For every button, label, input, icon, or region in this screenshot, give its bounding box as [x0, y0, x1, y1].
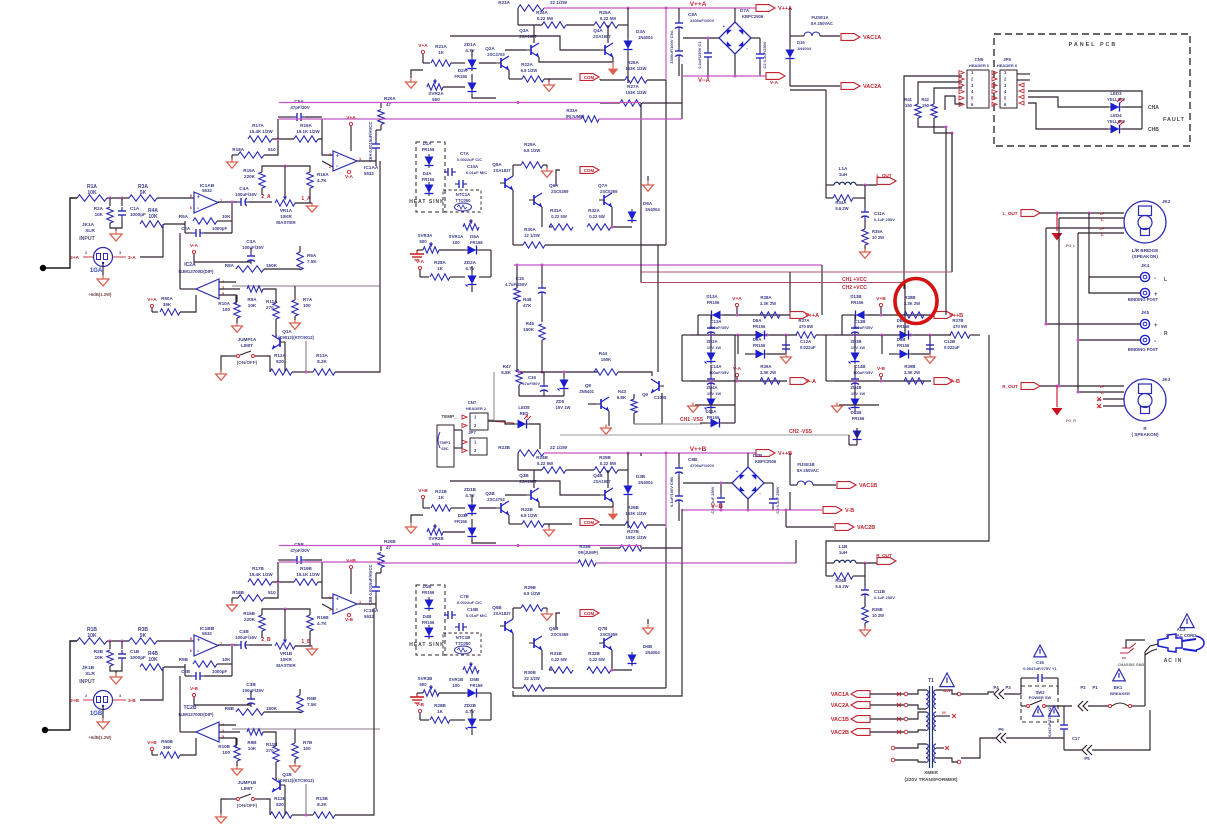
svg-text:1N4004: 1N4004 [797, 46, 812, 51]
svg-text:R13B: R13B [316, 796, 328, 801]
svg-text:V+A: V+A [732, 296, 742, 302]
svg-text:R39A: R39A [760, 364, 772, 369]
svg-text:820: 820 [276, 802, 284, 807]
svg-text:TMP1: TMP1 [440, 440, 451, 445]
wire [904, 76, 962, 289]
svg-text:6: 6 [190, 649, 192, 653]
svg-text:SVR1B: SVR1B [449, 677, 464, 682]
junction [665, 452, 668, 455]
wire rail V--A [514, 264, 822, 266]
svg-text:(ON/OFF): (ON/OFF) [237, 803, 258, 808]
svg-text:3: 3 [119, 251, 121, 255]
svg-text:BREAKER: BREAKER [1110, 691, 1130, 696]
svg-text:R13A: R13A [316, 353, 328, 358]
input terminal dot [42, 727, 48, 733]
svg-text:47pF/20V: 47pF/20V [290, 105, 309, 110]
junction [734, 75, 737, 78]
svg-text:Q7A: Q7A [598, 183, 608, 188]
svg-text:1uH: 1uH [839, 172, 847, 177]
power flag V++A [756, 5, 775, 12]
wire [880, 307, 882, 315]
svg-text:KBPC2506: KBPC2506 [755, 459, 777, 464]
svg-text:3: 3 [329, 153, 331, 157]
svg-text:3300uF/100V C9A: 3300uF/100V C9A [669, 30, 674, 63]
wire [277, 562, 279, 582]
wire [194, 704, 251, 706]
svg-text:V++A: V++A [690, 1, 707, 8]
wire rail [279, 102, 380, 104]
svg-text:R38B: R38B [904, 295, 915, 300]
resistor R7A [292, 300, 298, 316]
wire [518, 385, 520, 396]
svg-text:C11A: C11A [874, 211, 886, 216]
capacitor C4A [237, 201, 241, 203]
heat sink box D1A/D4A [416, 142, 445, 212]
wire [218, 644, 237, 646]
wire [785, 510, 787, 527]
wire [1132, 705, 1145, 707]
flag COM [580, 74, 599, 81]
potentiometer SVR1A [463, 224, 479, 230]
wire [737, 335, 739, 354]
wire rail [682, 509, 822, 511]
wire [1145, 644, 1158, 652]
wire [350, 126, 352, 151]
svg-text:15V 1W: 15V 1W [556, 405, 571, 410]
wire rail [683, 75, 766, 77]
svg-text:2SA1987: 2SA1987 [593, 479, 611, 484]
svg-text:FR156: FR156 [707, 415, 720, 420]
svg-text:CH2 +VCC: CH2 +VCC [842, 285, 867, 291]
svg-text:COM: COM [584, 611, 595, 616]
svg-text:L_OUT: L_OUT [876, 173, 891, 178]
junction [710, 380, 713, 383]
wire [657, 245, 659, 372]
svg-text:3.3K 2W: 3.3K 2W [904, 301, 920, 306]
wire rail CH2VSS [560, 434, 849, 436]
wire [157, 640, 194, 642]
svg-text:15.4K 1/2W: 15.4K 1/2W [249, 572, 273, 577]
svg-text:2N5401: 2N5401 [579, 389, 594, 394]
svg-text:2: 2 [85, 694, 87, 698]
wire [508, 70, 510, 79]
svg-text:8A 250VAC: 8A 250VAC [811, 21, 833, 26]
svg-text:R17B: R17B [252, 566, 264, 571]
svg-text:ZD2A: ZD2A [464, 260, 477, 265]
junction [854, 380, 857, 383]
transformer primary winding [926, 690, 928, 708]
svg-text:2SA1987: 2SA1987 [593, 34, 611, 39]
wire [1059, 217, 1124, 219]
wire [1046, 323, 1140, 325]
svg-text:V+A: V+A [147, 297, 157, 303]
svg-text:R47: R47 [503, 364, 512, 369]
wire rail A mid2 [380, 118, 581, 120]
svg-text:JK1B: JK1B [82, 665, 95, 671]
wire [284, 785, 286, 815]
svg-text:PG_L: PG_L [1066, 244, 1076, 248]
svg-text:470 5W: 470 5W [953, 324, 967, 329]
svg-text:2+B: 2+B [70, 698, 79, 704]
svg-text:Q9: Q9 [642, 392, 648, 397]
svg-text:4.7V: 4.7V [465, 48, 475, 53]
svg-text:150K: 150K [601, 357, 612, 362]
svg-text:V+A: V+A [346, 115, 356, 121]
svg-text:10 2W: 10 2W [872, 613, 884, 618]
svg-text:NTC1A: NTC1A [456, 192, 471, 197]
wire [1040, 385, 1124, 387]
svg-text:Q3A: Q3A [519, 28, 529, 33]
wire [505, 494, 526, 496]
svg-text:10K: 10K [95, 655, 104, 660]
svg-text:65C: 65C [441, 446, 448, 451]
svg-text:15.4K 1/2W: 15.4K 1/2W [249, 129, 273, 134]
wire [1126, 640, 1145, 648]
wire [217, 220, 232, 222]
svg-text:Q8: Q8 [585, 383, 592, 388]
wire [284, 609, 286, 639]
svg-text:COM: COM [584, 168, 595, 173]
svg-text:FR156: FR156 [707, 300, 720, 305]
potentiometer SVR3A [423, 247, 439, 253]
svg-text:INPUT: INPUT [79, 236, 95, 242]
svg-text:JK1A: JK1A [82, 222, 95, 228]
svg-text:R31A: R31A [550, 208, 562, 213]
svg-text:1000pF: 1000pF [130, 212, 146, 217]
svg-text:D13B: D13B [850, 294, 861, 299]
svg-text:CH2 -VSS: CH2 -VSS [789, 429, 813, 435]
svg-text:R_OUT: R_OUT [876, 553, 892, 558]
wire [295, 202, 312, 204]
svg-text:8.2K: 8.2K [317, 802, 327, 807]
wire [357, 603, 376, 605]
svg-text:R2B: R2B [94, 649, 104, 654]
ground [220, 813, 222, 817]
transistor Q1A [279, 337, 281, 347]
wire [512, 608, 514, 619]
wire vert A out [665, 8, 667, 80]
svg-text:153K 1/2W: 153K 1/2W [626, 90, 647, 95]
svg-text:R21B: R21B [435, 489, 447, 494]
svg-text:D4A: D4A [423, 171, 433, 176]
svg-text:15V 1W: 15V 1W [851, 391, 865, 396]
svg-text:3: 3 [329, 596, 331, 600]
op-amp IC2AA [196, 279, 219, 299]
svg-text:1: 1 [359, 600, 361, 604]
svg-text:POWER SW: POWER SW [1029, 695, 1052, 700]
svg-text:D2B: D2B [458, 513, 468, 518]
wire [450, 719, 465, 721]
svg-text:R34B: R34B [835, 578, 846, 583]
wire [264, 712, 300, 713]
chassis ground [1120, 648, 1130, 658]
junction [1056, 385, 1059, 388]
wire [936, 758, 958, 762]
potentiometer VR1A [275, 200, 295, 206]
svg-text:BINDING POST: BINDING POST [1128, 347, 1159, 352]
svg-text:10K: 10K [95, 212, 104, 217]
svg-text:C2B: C2B [181, 669, 190, 674]
svg-text:R33A: R33A [566, 108, 578, 113]
svg-text:(220V TRANSFORMER): (220V TRANSFORMER) [904, 777, 957, 783]
potentiometer VR1B [275, 643, 295, 649]
wire [236, 295, 238, 302]
junction [563, 371, 566, 374]
wire [961, 692, 994, 694]
wire rail CH2VCC [641, 282, 905, 284]
wire [450, 276, 465, 278]
svg-text:V+B: V+B [876, 296, 886, 302]
wire [870, 718, 904, 720]
wire [357, 160, 376, 162]
resistor R3A [129, 195, 157, 201]
svg-text:1N4004: 1N4004 [638, 35, 653, 40]
svg-text:1GA: 1GA [90, 268, 103, 274]
wire [533, 25, 535, 43]
power flag VAC2B [835, 524, 854, 531]
wire rail [279, 561, 380, 563]
svg-text:SVR2A: SVR2A [428, 91, 444, 96]
svg-text:R28B: R28B [434, 703, 446, 708]
svg-text:+6dB(1.2W): +6dB(1.2W) [89, 292, 113, 297]
svg-text:0.22 5W: 0.22 5W [537, 16, 554, 21]
resistor R17B [248, 579, 272, 585]
svg-text:C13A: C13A [710, 319, 722, 324]
svg-text:V-A: V-A [416, 259, 425, 265]
svg-text:100: 100 [222, 307, 230, 312]
wire [264, 582, 278, 598]
svg-text:R23B: R23B [498, 445, 510, 450]
svg-text:220K: 220K [244, 174, 256, 179]
svg-text:1uH: 1uH [839, 550, 847, 555]
transformer secondary winding [934, 690, 936, 708]
wire [600, 524, 625, 526]
junction [518, 371, 521, 374]
wire [411, 70, 423, 78]
potentiometer SVR2B [427, 529, 443, 535]
heat sink box D1B/D4B [416, 585, 445, 655]
wire [539, 436, 541, 449]
wire [826, 334, 834, 336]
svg-text:150: 150 [905, 103, 913, 108]
wire [110, 662, 122, 671]
svg-text:4.7V: 4.7V [465, 266, 475, 271]
svg-text:R31B: R31B [550, 651, 562, 656]
svg-text:2: 2 [329, 165, 331, 169]
svg-text:HEADER 2: HEADER 2 [466, 406, 487, 411]
ground [311, 202, 313, 206]
svg-text:510: 510 [268, 590, 276, 595]
wire [697, 315, 699, 335]
junction [766, 334, 769, 337]
svg-text:4.7V: 4.7V [465, 493, 475, 498]
input terminal dot [40, 265, 46, 271]
svg-text:+: + [1154, 323, 1158, 329]
svg-text:5532: 5532 [202, 188, 212, 193]
junction [1058, 385, 1061, 388]
ground [546, 167, 548, 171]
wire [140, 224, 163, 257]
potentiometer SVR3B [423, 690, 439, 696]
wire [221, 799, 227, 815]
svg-text:22 1/2W: 22 1/2W [524, 676, 540, 681]
svg-text:+: + [197, 195, 200, 201]
wire [232, 597, 238, 599]
wire [640, 103, 642, 283]
jp5 right stubs [1017, 73, 1030, 75]
svg-text:R10A: R10A [218, 301, 230, 306]
svg-text:3-A: 3-A [128, 255, 136, 261]
wire [157, 197, 194, 199]
AC cord AC3 [1180, 614, 1194, 628]
wire [164, 666, 185, 668]
svg-text:C7B: C7B [460, 594, 469, 599]
junction [864, 562, 867, 565]
resistor R4A [140, 221, 164, 227]
wire [825, 185, 827, 198]
svg-text:D6A: D6A [643, 201, 653, 206]
wire [1078, 391, 1124, 393]
svg-text:R15A: R15A [243, 168, 255, 173]
svg-text:15V 1W: 15V 1W [851, 345, 865, 350]
svg-text:1N4004: 1N4004 [645, 207, 660, 212]
svg-text:D9A: D9A [753, 337, 763, 342]
capacitor C16y [1034, 645, 1047, 657]
power flag V-A [766, 73, 785, 80]
svg-text:RED: RED [520, 411, 529, 416]
svg-text:8A 250VAC: 8A 250VAC [797, 468, 819, 473]
wire [936, 747, 944, 749]
svg-text:0.22 5W: 0.22 5W [537, 461, 554, 466]
wire [513, 563, 682, 696]
svg-text:7.5K: 7.5K [307, 702, 317, 707]
resistor R16A [307, 172, 313, 188]
svg-text:-: - [336, 164, 338, 170]
svg-text:ZD3A: ZD3A [707, 339, 718, 344]
wire [1028, 91, 1142, 129]
svg-text:(ON/OFF): (ON/OFF) [237, 360, 258, 365]
svg-text:4.7K: 4.7K [317, 621, 327, 626]
wire [539, 502, 613, 507]
svg-text:1000pF: 1000pF [212, 669, 227, 674]
svg-text:R23A: R23A [498, 0, 510, 5]
wire [759, 38, 761, 50]
wire [647, 176, 649, 181]
svg-text:FAULT: FAULT [1163, 117, 1185, 123]
ground [605, 424, 607, 428]
svg-text:2SA1837: 2SA1837 [493, 611, 511, 616]
svg-text:150K: 150K [266, 263, 278, 268]
wire [951, 133, 953, 272]
svg-text:D3B: D3B [636, 474, 646, 479]
svg-text:C14A: C14A [710, 364, 722, 369]
wire [821, 265, 823, 315]
svg-text:C6B 0.0015uF/HVCC: C6B 0.0015uF/HVCC [368, 565, 373, 606]
svg-text:D11A: D11A [706, 409, 718, 414]
svg-text:47pF/20V: 47pF/20V [290, 548, 309, 553]
svg-text:R17A: R17A [252, 123, 264, 128]
svg-text:0.22 5W: 0.22 5W [551, 657, 567, 662]
svg-text:LED3: LED3 [1110, 91, 1122, 96]
svg-text:NJM13700D(DIP): NJM13700D(DIP) [179, 712, 214, 717]
capacitor C2B [184, 667, 186, 676]
svg-text:100: 100 [222, 750, 230, 755]
junction [880, 380, 883, 383]
svg-text:HEADER 6: HEADER 6 [997, 63, 1018, 68]
svg-text:2_B: 2_B [261, 637, 271, 643]
power flag VAC2Ab [851, 702, 870, 709]
svg-text:P1: P1 [1092, 685, 1098, 690]
svg-text:R16A: R16A [317, 172, 329, 177]
resistor R15B [259, 615, 265, 631]
ground [115, 230, 117, 234]
svg-text:V-B: V-B [416, 702, 425, 708]
svg-text:R9B: R9B [247, 740, 257, 745]
svg-text:15V 1W: 15V 1W [707, 345, 721, 350]
svg-text:Q4B: Q4B [593, 473, 603, 478]
wire [417, 692, 423, 694]
potentiometer SVR1B [463, 667, 479, 673]
wire rail [279, 545, 380, 547]
wire [517, 8, 519, 25]
svg-text:R33B: R33B [579, 544, 590, 549]
svg-text:BINDING POST: BINDING POST [1128, 297, 1159, 302]
svg-text:V-B: V-B [845, 508, 854, 514]
junction [284, 165, 287, 168]
svg-text:3300uF/100V: 3300uF/100V [690, 18, 715, 23]
junction [284, 608, 287, 611]
svg-text:ZD1A: ZD1A [464, 42, 477, 47]
svg-text:D11B: D11B [851, 410, 862, 415]
wire [272, 581, 294, 583]
svg-text:C10A: C10A [467, 164, 479, 169]
junction [121, 640, 124, 643]
wire [1046, 227, 1124, 229]
wire [322, 582, 333, 598]
flag COM2 [580, 610, 599, 617]
wire [795, 540, 797, 563]
power flag V++Bv [934, 312, 953, 319]
svg-text:MASTER: MASTER [276, 663, 296, 668]
resistor R7B [292, 743, 298, 759]
svg-text:C6A 0.0015uF/HVCC: C6A 0.0015uF/HVCC [368, 122, 373, 162]
svg-text:R30B: R30B [524, 670, 536, 675]
wire [678, 8, 680, 19]
op-amp IC1AA [333, 151, 357, 171]
wire [618, 372, 652, 376]
svg-text:JP7: JP7 [468, 430, 476, 435]
svg-text:VAC1B: VAC1B [859, 483, 877, 489]
resistor R18A [238, 152, 264, 158]
svg-text:R18A: R18A [232, 147, 244, 152]
svg-text:0.022uF: 0.022uF [944, 345, 960, 350]
svg-text:V--A: V--A [805, 379, 816, 385]
svg-text:0.22 5W: 0.22 5W [600, 16, 617, 21]
svg-text:LED8: LED8 [518, 405, 530, 410]
svg-text:PANEL PCB: PANEL PCB [1069, 42, 1118, 48]
svg-text:VAC2B: VAC2B [831, 730, 849, 736]
svg-text:VAC1A: VAC1A [863, 35, 881, 41]
power flag V++Av [790, 312, 809, 319]
wire [261, 188, 263, 195]
svg-text:2SA1837: 2SA1837 [493, 168, 511, 173]
svg-text:P6: P6 [998, 727, 1004, 732]
svg-text:CHB: CHB [1148, 127, 1159, 133]
junction [231, 644, 234, 647]
wire red cn7 [489, 421, 514, 423]
junction [516, 264, 519, 267]
junction [785, 509, 788, 512]
